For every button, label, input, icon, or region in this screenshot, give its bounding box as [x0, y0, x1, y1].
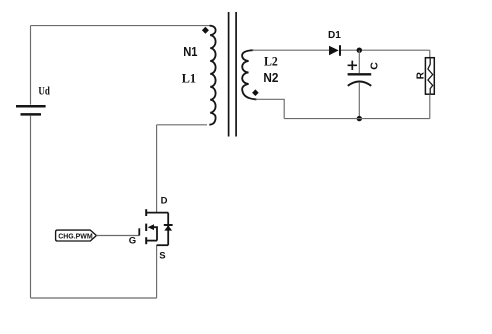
mosfet Q channel bar middle	[145, 224, 147, 231]
wire bottom right rail	[284, 118, 430, 120]
svg-text:L2: L2	[264, 54, 278, 69]
wire secondary top to diode	[252, 49, 329, 51]
wire primary bottom to drain corner	[157, 124, 207, 126]
resistor R body	[425, 58, 434, 94]
mosfet Q arrow (bulk)	[148, 224, 154, 230]
battery Ud top plate	[16, 105, 46, 108]
capacitor C wire upper	[358, 50, 360, 73]
svg-text:Ud: Ud	[38, 85, 50, 97]
svg-text:R: R	[415, 71, 426, 79]
wire top rail left (battery + to primary)	[31, 25, 210, 27]
mosfet Q drain stroke	[146, 212, 168, 214]
resistor R zigzag	[428, 58, 433, 94]
capacitor plus sign	[348, 61, 357, 70]
svg-text:D1: D1	[328, 30, 341, 41]
capacitor C curved plate	[348, 82, 371, 86]
wire diode to right corner	[341, 49, 430, 51]
junction node cap top	[357, 48, 362, 53]
transformer primary winding L1/N1	[209, 26, 215, 125]
wire resistor bottom lead	[429, 94, 431, 118]
svg-text:D: D	[161, 196, 168, 207]
wire gate	[96, 235, 139, 237]
transformer core line left	[228, 12, 230, 137]
battery Ud bottom plate	[21, 113, 42, 116]
mosfet Q body diode bar	[164, 224, 173, 226]
mosfet Q source stroke	[146, 240, 157, 242]
diode D1	[329, 46, 339, 56]
svg-text:N1: N1	[183, 44, 197, 59]
junction node cap bottom	[357, 116, 362, 121]
capacitor C top plate	[348, 73, 372, 75]
svg-text:L1: L1	[182, 71, 196, 86]
mosfet Q channel bar bottom	[145, 237, 147, 244]
wire secondary bottom	[256, 99, 285, 118]
svg-text:C: C	[368, 62, 380, 70]
polarity diamond primary	[202, 27, 209, 34]
wire source to bottom rail	[156, 245, 158, 298]
mosfet Q bottom stroke	[157, 244, 169, 246]
svg-text:G: G	[129, 235, 136, 246]
port flag CHG.PWM	[56, 230, 97, 241]
wire bottom rail	[31, 297, 157, 299]
wire left rail lower (battery - down)	[30, 116, 32, 298]
wire left rail upper (battery top)	[30, 26, 32, 105]
capacitor C wire lower	[358, 82, 360, 119]
svg-text:CHG.PWM: CHG.PWM	[58, 231, 92, 240]
mosfet Q gate stub	[138, 228, 140, 235]
wire resistor top lead	[429, 50, 431, 58]
mosfet Q body diode triangle	[164, 225, 172, 230]
mosfet Q right vertical	[167, 213, 169, 246]
wire drain vertical	[156, 125, 158, 213]
mosfet Q channel bar top	[145, 209, 147, 216]
svg-text:N2: N2	[263, 70, 278, 85]
transformer core line right	[235, 12, 237, 137]
svg-text:S: S	[159, 251, 165, 262]
polarity diamond secondary	[252, 89, 259, 96]
transformer secondary winding L2/N2	[242, 50, 256, 99]
